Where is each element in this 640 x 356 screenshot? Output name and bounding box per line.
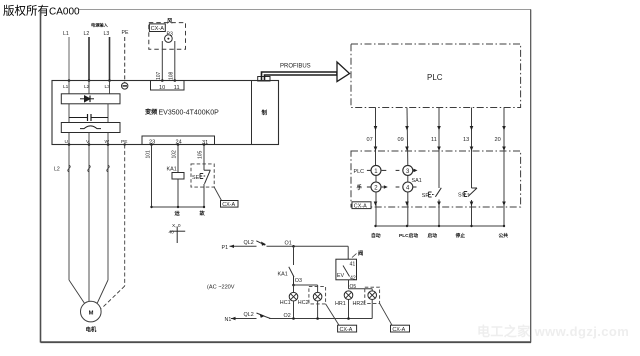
PE dashed wire down [124, 145, 126, 287]
svg-text:O1: O1 [285, 240, 292, 246]
wire L1 [68, 37, 70, 81]
svg-text:13: 13 [463, 137, 469, 143]
svg-text:HC1: HC1 [280, 300, 291, 306]
svg-text:N1: N1 [225, 317, 232, 323]
connector box CX-A (fan, dashed) [149, 23, 186, 50]
svg-text:KA1: KA1 [278, 272, 288, 278]
svg-text:42: 42 [350, 275, 356, 281]
motor M1 circle [81, 301, 102, 322]
junction dots wires 107/108 [161, 79, 176, 82]
svg-text:EV3500-4T400K0P: EV3500-4T400K0P [159, 110, 220, 117]
earth terminal circle [122, 83, 128, 89]
wire N1 feed [231, 318, 257, 320]
wire L2 into rectifier [88, 81, 90, 94]
breaker QL2 contact (top) [256, 241, 266, 246]
junction dots inverter bottom [68, 143, 206, 146]
svg-text:L1: L1 [63, 31, 69, 37]
DC bus rail left [68, 104, 70, 123]
svg-text:(AC ~220V: (AC ~220V [207, 285, 235, 291]
svg-text:CX-A: CX-A [340, 327, 353, 333]
junction dots at inverter top terminals [68, 79, 111, 82]
motor feed wire W [107, 145, 109, 281]
svg-text:CA000: CA000 [49, 7, 80, 18]
svg-text:自动: 自动 [371, 232, 381, 239]
wire O1 to EV [347, 246, 349, 259]
PROFIBUS arrowhead [337, 62, 350, 82]
drawing frame [41, 10, 532, 343]
cable squiggle on W [107, 165, 110, 172]
svg-text:105: 105 [198, 150, 204, 159]
contact KA1 (NO) [289, 267, 294, 285]
leader HC2 box to CX-A [326, 304, 339, 325]
cable squiggle on U [68, 165, 71, 172]
svg-text:公共: 公共 [499, 232, 509, 239]
wires lamps HC to bottom bus [293, 301, 295, 319]
label box CX-A [149, 24, 165, 32]
wire O3 bus to HC2 [293, 285, 295, 293]
wire P1 feed [230, 245, 257, 247]
terminal box 10/11 [151, 81, 185, 91]
leader HR2 box to CX-A [380, 303, 392, 325]
svg-text:O2: O2 [284, 313, 291, 319]
node O1 junction [292, 245, 295, 248]
svg-text:QL2: QL2 [244, 312, 254, 318]
label box CX-A (HR2) [391, 325, 410, 333]
svg-text:PLC: PLC [427, 73, 443, 82]
wire W slant to motor [97, 280, 108, 303]
motor feed wire U [68, 145, 70, 281]
wire PE (dashed) [124, 37, 126, 83]
label box CX-A (HC2) [338, 325, 357, 333]
svg-text:M: M [89, 311, 94, 317]
wire 11 [438, 108, 440, 189]
wire QL2 to O1 [267, 245, 349, 247]
selector contact 2 [367, 182, 384, 192]
DC bus rail right [107, 104, 109, 123]
bottom control terminal box [142, 136, 215, 145]
relay coil KA1 [172, 173, 184, 180]
connector dashed box around HC2 [309, 287, 326, 304]
wire direction arrows at box bottom [374, 202, 506, 207]
svg-text:PLC: PLC [354, 169, 365, 175]
svg-text:41: 41 [350, 261, 356, 267]
svg-text:QL2: QL2 [244, 240, 254, 246]
wire U slant to motor [69, 280, 84, 303]
svg-text:CX-A: CX-A [222, 202, 235, 208]
svg-text:EV: EV [337, 273, 345, 279]
lamp HC2 [313, 292, 322, 301]
svg-text:L3: L3 [104, 31, 110, 37]
breaker QL2 contact (bottom) [257, 313, 271, 319]
selector contact 3 [396, 165, 414, 175]
wire 07 [375, 108, 377, 166]
svg-text:P1: P1 [222, 245, 229, 251]
inverter U1 main box [52, 81, 279, 145]
wire QL2 to O2 and lamps bus [269, 318, 372, 320]
wire L2 [88, 37, 90, 81]
inverter bridge block [61, 123, 120, 133]
svg-text:108: 108 [169, 71, 175, 80]
wire 13 [471, 108, 473, 189]
valve EV box [336, 259, 357, 280]
wire EV down [348, 280, 350, 289]
wire L1 into rectifier [68, 81, 70, 94]
svg-text:版权所有: 版权所有 [3, 4, 49, 18]
wire 108 [174, 41, 176, 81]
wire O1 down to KA1 contact [293, 246, 295, 265]
PROFIBUS stub box on inverter [258, 77, 270, 82]
svg-text:11: 11 [431, 137, 437, 143]
svg-text:CX-A: CX-A [392, 327, 405, 333]
svg-text:HR1: HR1 [335, 301, 346, 307]
wire 20 [503, 108, 505, 227]
selector connector box CX-A (dash-dot) [351, 151, 521, 207]
svg-text:09: 09 [398, 137, 404, 143]
svg-text:KA1: KA1 [167, 167, 177, 173]
PE dashed slant to motor [102, 286, 125, 309]
svg-text:40: 40 [169, 230, 175, 236]
svg-text:11: 11 [174, 85, 180, 91]
svg-text:CX-A: CX-A [354, 203, 367, 209]
svg-text:阀: 阀 [358, 249, 363, 257]
svg-text:启动: 启动 [428, 232, 438, 239]
wires bridge to U V W terminals [69, 133, 108, 145]
wire L3 into rectifier [109, 81, 111, 94]
svg-text:107: 107 [156, 71, 162, 80]
svg-text:31: 31 [202, 140, 208, 146]
svg-text:制: 制 [262, 109, 268, 117]
svg-text:故: 故 [200, 209, 206, 217]
wire L3 [109, 37, 111, 81]
svg-text:电源输入: 电源输入 [91, 22, 109, 29]
svg-text:O3: O3 [295, 278, 302, 284]
bottom bus (KA1/SE) [152, 206, 205, 208]
sensor B1 (fan thermo circle) [165, 35, 173, 43]
wire direction arrows upper [374, 126, 506, 131]
svg-text:SE: SE [192, 175, 200, 181]
wire 09 [406, 108, 409, 166]
junction dots bottom bus [292, 317, 350, 320]
lamp HR2 [368, 291, 377, 300]
reference mark X,0 / 40 [169, 223, 186, 243]
selector contact 4 [396, 182, 417, 192]
lamp HR1 [344, 291, 353, 300]
svg-text:10: 10 [159, 85, 165, 91]
motor feed wire V [88, 145, 90, 302]
svg-text:手: 手 [357, 183, 363, 191]
svg-text:L1: L1 [63, 84, 69, 90]
svg-text:HR2L: HR2L [353, 301, 367, 307]
wires lamps HR to bottom bus [348, 300, 350, 319]
bottom bus of PLC inputs [376, 225, 505, 227]
svg-text:CX-A: CX-A [151, 26, 165, 32]
PLC box (dash-dot) [351, 44, 521, 108]
switch SE actuator [200, 170, 211, 184]
svg-text:电工之家 www.dgzj.com: 电工之家 www.dgzj.com [477, 324, 629, 339]
svg-text:电机: 电机 [86, 326, 97, 334]
svg-text:风: 风 [167, 17, 173, 25]
connector dashed box around HR2 [365, 287, 380, 303]
valve EV internal contact [343, 266, 350, 277]
wire 102 [177, 145, 179, 173]
inverter comm compartment divider [251, 81, 253, 145]
svg-text:运: 运 [175, 209, 181, 217]
DC bus capacitor [69, 114, 108, 121]
leader SE to CX-A [214, 187, 221, 200]
cable squiggle on V [88, 165, 91, 172]
selector contact 1 [367, 165, 386, 175]
svg-text:SA1: SA1 [412, 178, 422, 184]
wire direction arrows at box top [374, 147, 506, 152]
node O3 junction [292, 284, 295, 287]
svg-text:L2: L2 [84, 31, 90, 37]
svg-text:HC2: HC2 [298, 300, 309, 306]
rectifier block [61, 94, 120, 104]
svg-text:停止: 停止 [456, 232, 466, 239]
svg-text:PROFIBUS: PROFIBUS [280, 64, 311, 70]
svg-text:PE: PE [122, 30, 129, 36]
label box CX-A (selector) [352, 202, 371, 210]
svg-text:101: 101 [146, 150, 152, 159]
connector SE dashed box [191, 164, 214, 187]
svg-text:L2: L2 [54, 167, 60, 173]
svg-text:102: 102 [172, 150, 178, 159]
lamp HC1 [289, 292, 298, 301]
wire 107 [161, 41, 163, 81]
label box CX-A (SE) [221, 201, 239, 209]
wire HR bus [349, 288, 373, 290]
rectifier diode symbol [80, 96, 94, 103]
svg-text:PLC启动: PLC启动 [399, 232, 418, 239]
svg-text:变频: 变频 [145, 108, 158, 116]
wire 105 [203, 145, 205, 171]
wire 101 [151, 145, 153, 208]
svg-text:20: 20 [495, 137, 501, 143]
svg-text:X, 0: X, 0 [172, 223, 181, 229]
PROFIBUS bus line [262, 72, 338, 80]
svg-text:07: 07 [367, 137, 373, 143]
inverter bridge sine symbol [80, 126, 101, 129]
